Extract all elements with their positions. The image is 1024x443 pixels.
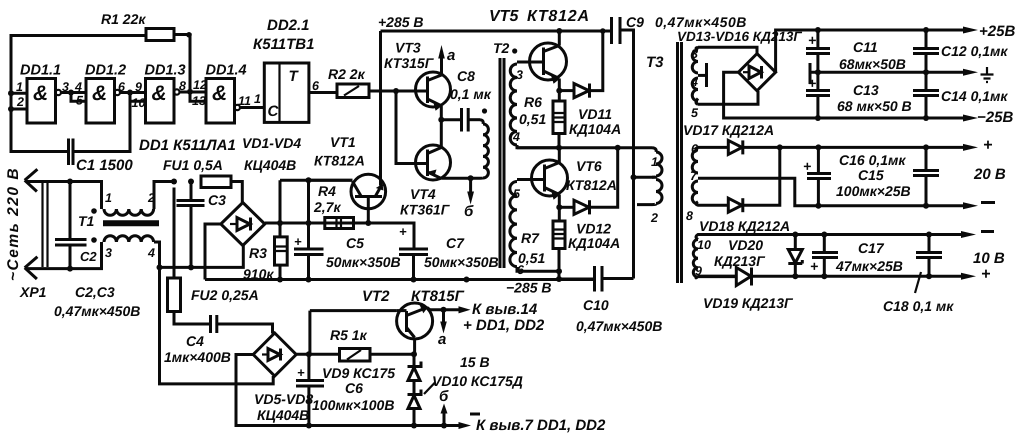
- svg-text:КТ815Г: КТ815Г: [411, 288, 465, 305]
- svg-text:2,7к: 2,7к: [313, 199, 341, 215]
- svg-text:100мк×100В: 100мк×100В: [312, 397, 394, 413]
- svg-text:5: 5: [513, 187, 521, 201]
- svg-text:2: 2: [147, 191, 155, 205]
- svg-text:6: 6: [312, 79, 320, 93]
- svg-text:VD10 КС175Д: VD10 КС175Д: [432, 373, 523, 389]
- svg-text:С13: С13: [853, 82, 879, 98]
- svg-text:68 мк×50 В: 68 мк×50 В: [837, 98, 912, 114]
- svg-text:R2 2к: R2 2к: [328, 66, 366, 82]
- svg-text:+: +: [808, 32, 816, 48]
- svg-text:КЦ404В: КЦ404В: [244, 157, 296, 173]
- svg-text:68мк×50В: 68мк×50В: [839, 56, 906, 72]
- svg-text:DD1.1: DD1.1: [20, 63, 61, 79]
- svg-text:8: 8: [686, 209, 693, 223]
- svg-text:10: 10: [132, 96, 146, 110]
- svg-text:С7: С7: [446, 235, 465, 251]
- svg-text:2: 2: [650, 211, 658, 225]
- svg-text:−25В: −25В: [977, 109, 1013, 126]
- svg-text:а: а: [438, 331, 446, 348]
- svg-text:+ DD1, DD2: + DD1, DD2: [463, 317, 545, 334]
- svg-text:3: 3: [691, 47, 698, 61]
- svg-text:13: 13: [192, 94, 206, 108]
- svg-text:С1 1500: С1 1500: [76, 157, 133, 174]
- svg-text:C: C: [268, 103, 280, 120]
- svg-text:VD9 КС175: VD9 КС175: [322, 365, 395, 381]
- svg-text:0,51: 0,51: [519, 111, 546, 127]
- svg-text:4: 4: [690, 75, 698, 89]
- svg-text:12: 12: [193, 78, 207, 92]
- svg-text:VT6: VT6: [576, 158, 602, 174]
- svg-text:+: +: [808, 75, 816, 91]
- svg-text:R4: R4: [318, 183, 336, 199]
- svg-text:FU1 0,5А: FU1 0,5А: [163, 157, 223, 173]
- svg-text:VD18 КД212А: VD18 КД212А: [699, 218, 790, 234]
- svg-text:FU2 0,25А: FU2 0,25А: [191, 287, 259, 303]
- svg-text:+: +: [803, 158, 811, 174]
- svg-text:VD19 КД213Г: VD19 КД213Г: [703, 295, 794, 311]
- svg-text:КТ361Г: КТ361Г: [400, 202, 451, 218]
- svg-text:R7: R7: [521, 230, 540, 246]
- svg-text:DD1.2: DD1.2: [85, 63, 126, 79]
- svg-text:С8: С8: [457, 68, 475, 84]
- svg-text:С2,С3: С2,С3: [75, 284, 115, 300]
- svg-text:9: 9: [695, 264, 702, 278]
- svg-text:1: 1: [16, 80, 23, 94]
- svg-text:20 В: 20 В: [973, 166, 1006, 183]
- svg-text:+285 В: +285 В: [378, 14, 424, 30]
- svg-text:3: 3: [105, 246, 112, 260]
- svg-text:100мк×25В: 100мк×25В: [836, 183, 911, 199]
- svg-text:+: +: [810, 258, 818, 274]
- svg-text:1: 1: [105, 191, 112, 205]
- svg-text:0,47мк×450В: 0,47мк×450В: [54, 303, 140, 319]
- svg-text:5: 5: [76, 94, 84, 108]
- svg-text:С9: С9: [626, 14, 644, 30]
- svg-text:3: 3: [62, 80, 69, 94]
- svg-text:DD2.1: DD2.1: [267, 17, 310, 34]
- svg-text:6: 6: [691, 142, 699, 156]
- svg-text:47мк×25В: 47мк×25В: [835, 258, 903, 274]
- svg-text:Т3: Т3: [646, 54, 664, 71]
- svg-text:КТ315Г: КТ315Г: [384, 55, 435, 71]
- svg-text:VD13-VD16 КД213Г: VD13-VD16 КД213Г: [677, 29, 802, 44]
- svg-text:VT3: VT3: [395, 40, 421, 56]
- svg-text:R1 22к: R1 22к: [101, 11, 146, 27]
- svg-text:0,1 мк: 0,1 мк: [450, 86, 492, 102]
- svg-text:4: 4: [512, 130, 520, 144]
- svg-text:VD1-VD4: VD1-VD4: [242, 135, 301, 151]
- svg-text:3: 3: [516, 68, 523, 82]
- svg-text:ХР1: ХР1: [19, 284, 47, 300]
- svg-text:+: +: [297, 365, 305, 380]
- svg-text:VD17 КД212А: VD17 КД212А: [683, 122, 774, 138]
- svg-text:6: 6: [517, 263, 525, 277]
- svg-text:С2: С2: [80, 249, 97, 264]
- svg-text:&: &: [212, 82, 227, 105]
- svg-text:&: &: [152, 82, 167, 105]
- svg-text:КТ812А: КТ812А: [527, 8, 590, 25]
- svg-text:VT1: VT1: [330, 134, 356, 150]
- svg-text:10: 10: [697, 238, 711, 252]
- svg-text:5: 5: [691, 106, 699, 120]
- svg-text:&: &: [33, 82, 48, 105]
- svg-text:К выв.7 DD1, DD2: К выв.7 DD1, DD2: [476, 417, 606, 434]
- svg-text:50мк×350В: 50мк×350В: [326, 254, 401, 270]
- svg-text:9: 9: [135, 80, 142, 94]
- svg-text:VT4: VT4: [410, 186, 436, 202]
- svg-text:DD1.3: DD1.3: [145, 63, 186, 79]
- svg-text:КД104А: КД104А: [568, 235, 620, 251]
- svg-text:б: б: [439, 388, 449, 405]
- svg-text:С14 0,1мк: С14 0,1мк: [941, 88, 1008, 104]
- svg-text:~Сеть 220 В: ~Сеть 220 В: [5, 167, 22, 281]
- svg-text:С18 0,1 мк: С18 0,1 мк: [883, 298, 954, 314]
- svg-text:DD1 К511ЛА1: DD1 К511ЛА1: [139, 137, 236, 154]
- svg-text:0,47мк×450В: 0,47мк×450В: [576, 318, 662, 334]
- svg-text:+: +: [399, 224, 407, 239]
- svg-text:С16 0,1мк: С16 0,1мк: [839, 152, 906, 168]
- svg-text:R3: R3: [249, 245, 267, 261]
- svg-text:6: 6: [118, 80, 126, 94]
- svg-text:VD11: VD11: [578, 106, 612, 122]
- svg-text:С12 0,1мк: С12 0,1мк: [941, 43, 1008, 59]
- svg-text:R5 1к: R5 1к: [330, 327, 368, 343]
- svg-text:КТ812А: КТ812А: [314, 153, 365, 169]
- svg-text:1мк×400В: 1мк×400В: [164, 349, 231, 365]
- svg-text:С3: С3: [208, 192, 226, 208]
- svg-text:15 В: 15 В: [460, 354, 490, 370]
- svg-text:VD5-VD8: VD5-VD8: [254, 391, 313, 407]
- svg-text:С10: С10: [583, 297, 609, 313]
- svg-text:С11: С11: [853, 39, 878, 55]
- svg-text:VT2: VT2: [362, 288, 390, 305]
- svg-text:С5: С5: [346, 235, 364, 251]
- svg-text:910к: 910к: [243, 266, 274, 282]
- svg-text:+25В: +25В: [979, 23, 1015, 40]
- svg-text:+: +: [294, 234, 302, 249]
- svg-text:2: 2: [16, 95, 24, 109]
- svg-text:4: 4: [74, 80, 82, 94]
- svg-text:С6: С6: [345, 380, 363, 396]
- svg-text:К511ТВ1: К511ТВ1: [253, 36, 314, 53]
- svg-text:К выв.14: К выв.14: [472, 301, 538, 318]
- svg-text:&: &: [92, 82, 107, 105]
- svg-text:50мк×350В: 50мк×350В: [424, 254, 499, 270]
- svg-text:1: 1: [651, 155, 658, 169]
- svg-text:4: 4: [147, 246, 155, 260]
- svg-text:КД104А: КД104А: [569, 121, 621, 137]
- svg-text:−285 В: −285 В: [506, 280, 552, 296]
- svg-text:+: +: [983, 137, 992, 154]
- svg-text:С17: С17: [858, 240, 885, 256]
- svg-text:7: 7: [690, 169, 698, 183]
- svg-text:б: б: [464, 203, 474, 220]
- svg-text:КЦ404В: КЦ404В: [257, 407, 309, 423]
- svg-text:VD20: VD20: [728, 237, 763, 253]
- svg-text:КД213Г: КД213Г: [714, 253, 766, 269]
- svg-text:Т1: Т1: [78, 213, 95, 229]
- svg-text:1: 1: [254, 92, 261, 106]
- svg-text:С15: С15: [858, 167, 884, 183]
- svg-text:11: 11: [238, 94, 251, 108]
- svg-text:Т2: Т2: [493, 40, 510, 56]
- svg-text:КТ812А: КТ812А: [566, 177, 617, 193]
- svg-text:VT5: VT5: [489, 8, 519, 25]
- svg-text:R6: R6: [524, 94, 542, 110]
- svg-text:С4: С4: [186, 333, 204, 349]
- svg-text:DD1.4: DD1.4: [206, 63, 247, 79]
- svg-text:8: 8: [179, 79, 186, 93]
- svg-text:+: +: [981, 266, 990, 283]
- svg-text:0,47мк×450В: 0,47мк×450В: [655, 14, 747, 30]
- svg-text:10 В: 10 В: [973, 250, 1005, 267]
- svg-text:а: а: [447, 47, 455, 64]
